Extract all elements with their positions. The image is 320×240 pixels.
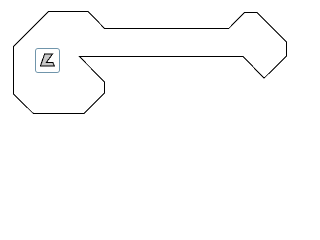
icon frame xyxy=(36,49,60,73)
polygon outline xyxy=(14,12,287,114)
icon glyph Z xyxy=(40,54,54,66)
